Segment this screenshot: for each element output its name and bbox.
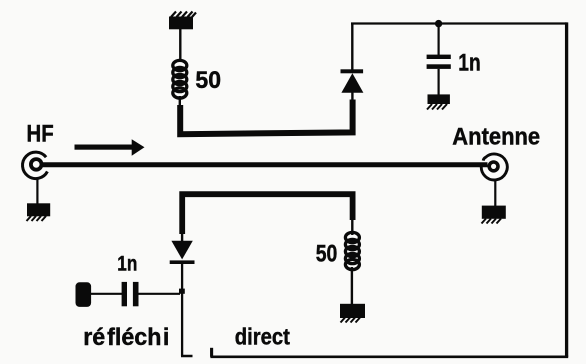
svg-text:réfléchi: réfléchi xyxy=(83,325,169,351)
svg-text:50: 50 xyxy=(316,240,338,267)
svg-text:1n: 1n xyxy=(117,253,137,276)
svg-text:direct: direct xyxy=(235,323,290,350)
svg-text:50: 50 xyxy=(195,67,221,94)
svg-text:1n: 1n xyxy=(458,48,480,76)
svg-text:HF: HF xyxy=(27,120,54,147)
svg-text:Antenne: Antenne xyxy=(452,123,540,150)
